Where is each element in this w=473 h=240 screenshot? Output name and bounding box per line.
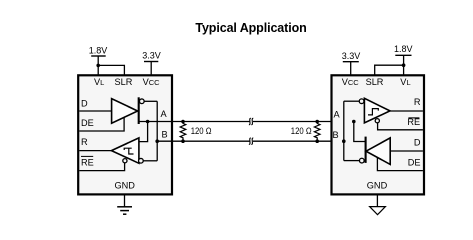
svg-text:B: B bbox=[162, 129, 168, 139]
bus A break mark bbox=[249, 118, 251, 124]
svg-text:R: R bbox=[81, 137, 88, 147]
U2 receiver inverting input bubble bbox=[359, 99, 364, 104]
U2 RE overline bbox=[408, 117, 419, 119]
wire driver bubble to B branch bbox=[144, 100, 157, 102]
right transceiver U2 body bbox=[332, 75, 425, 194]
left transceiver U1 body bbox=[78, 75, 172, 194]
U1 1.8V rail bar bbox=[91, 55, 106, 57]
svg-text:RE: RE bbox=[81, 157, 94, 167]
U1 pin RE wire bbox=[79, 163, 124, 171]
svg-text:VL: VL bbox=[400, 77, 410, 87]
U1 GND pin wire bbox=[124, 194, 126, 206]
U1 receiver hysteresis symbol bbox=[124, 148, 133, 154]
ground symbol left bbox=[117, 207, 132, 214]
svg-text:3.3V: 3.3V bbox=[142, 51, 161, 61]
wire junction to SLR pin right bbox=[375, 65, 404, 75]
node B junction right bbox=[342, 139, 346, 143]
U1 pin D wire bbox=[79, 110, 111, 112]
node A junction bbox=[146, 120, 150, 124]
svg-text:D: D bbox=[81, 99, 88, 109]
svg-text:A: A bbox=[334, 109, 341, 119]
U2 receiver triangle bbox=[364, 98, 390, 123]
svg-text:3.3V: 3.3V bbox=[342, 51, 361, 61]
node B junction bbox=[155, 139, 159, 143]
svg-text:1.8V: 1.8V bbox=[394, 44, 413, 54]
wire receiver bubble to B branch right bbox=[344, 100, 359, 102]
U2 receiver hysteresis symbol bbox=[368, 109, 378, 115]
node A junction right bbox=[352, 120, 356, 124]
bus B break mark bbox=[249, 138, 251, 144]
U1 receiver triangle bbox=[111, 138, 138, 163]
node junction on VL wire right bbox=[402, 63, 406, 67]
wire A to receiver input bbox=[139, 122, 148, 142]
ground symbol right (open triangle) bbox=[370, 207, 386, 215]
wire 3.3V to VCC pin bbox=[150, 62, 152, 76]
U2 driver triangle bbox=[366, 138, 390, 165]
U2 pin D wire bbox=[390, 150, 423, 152]
svg-text:RE: RE bbox=[407, 117, 420, 127]
svg-text:GND: GND bbox=[114, 180, 135, 190]
wire driver bubble to B branch right bbox=[344, 160, 360, 162]
svg-text:GND: GND bbox=[367, 181, 388, 191]
wire junction to SLR pin bbox=[98, 65, 124, 75]
svg-text:DE: DE bbox=[408, 157, 421, 167]
resistor RT2 120 ohm termination right bbox=[314, 120, 320, 143]
U1 driver inverting output bubble bbox=[139, 99, 144, 104]
U2 driver inverting output bubble bbox=[359, 158, 364, 163]
resistor RT1 120 ohm termination left bbox=[180, 120, 186, 143]
node junction on VL wire bbox=[96, 64, 100, 68]
U2 3.3V rail bar bbox=[343, 61, 359, 63]
wire bus line A bbox=[139, 121, 250, 123]
U2 receiver enable bubble bbox=[375, 119, 379, 123]
wire B vertical branch bbox=[156, 101, 158, 161]
wire 1.8V to VL pin bbox=[403, 55, 405, 75]
svg-text:1.8V: 1.8V bbox=[89, 45, 108, 55]
svg-text:VL: VL bbox=[94, 77, 104, 87]
U1 pin DE wire bbox=[79, 117, 124, 131]
U2 1.8V rail bar bbox=[395, 54, 411, 56]
wire receiver bubble to B branch bbox=[143, 160, 157, 162]
U1 RE overline bbox=[81, 155, 93, 157]
svg-text:R: R bbox=[414, 97, 421, 107]
svg-text:SLR: SLR bbox=[366, 77, 384, 87]
svg-text:VCC: VCC bbox=[342, 77, 360, 87]
U1 3.3V rail bar bbox=[144, 61, 158, 63]
wire 3.3V to VCC pin bbox=[350, 62, 352, 76]
svg-text:A: A bbox=[161, 109, 168, 119]
U1 driver output bar bbox=[138, 97, 140, 124]
svg-text:VCC: VCC bbox=[143, 77, 161, 87]
svg-text:SLR: SLR bbox=[114, 77, 132, 87]
svg-text:B: B bbox=[333, 130, 339, 140]
wire A to driver output bar right bbox=[354, 122, 366, 142]
wire B vertical branch right bbox=[343, 101, 345, 160]
svg-text:120 Ω: 120 Ω bbox=[291, 126, 312, 136]
svg-text:Typical Application: Typical Application bbox=[195, 21, 306, 35]
wire bus line B bbox=[157, 140, 249, 142]
U1 receiver enable bubble bbox=[123, 159, 127, 163]
U1 pin R wire bbox=[79, 150, 111, 152]
U2 pin DE wire bbox=[377, 157, 423, 170]
U1 receiver inverting input bubble bbox=[139, 158, 144, 163]
U2 pin R wire bbox=[390, 110, 423, 112]
U2 driver output bar bbox=[365, 137, 367, 163]
U2 pin RE wire bbox=[378, 123, 423, 130]
svg-text:DE: DE bbox=[81, 118, 94, 128]
wire 1.8V to VL pin bbox=[97, 56, 99, 75]
U2 GND pin wire bbox=[376, 194, 378, 206]
svg-text:D: D bbox=[414, 137, 421, 147]
U1 driver triangle bbox=[112, 99, 138, 124]
svg-text:120 Ω: 120 Ω bbox=[191, 126, 212, 136]
